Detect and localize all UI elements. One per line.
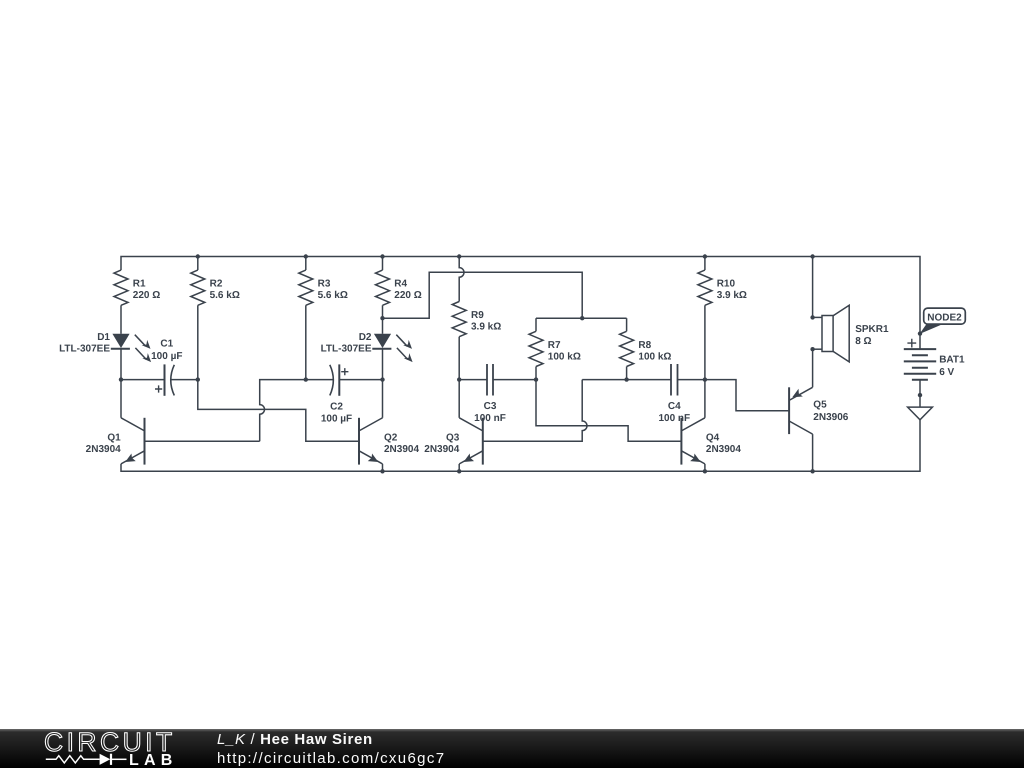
resistor R2 <box>191 270 240 305</box>
svg-text:Q5: Q5 <box>813 400 827 411</box>
transistor Q1 <box>86 418 145 465</box>
wire R7 top lead <box>535 318 537 331</box>
transistor Q3 <box>424 418 483 465</box>
wire R2 top lead <box>197 257 199 271</box>
svg-text:8 Ω: 8 Ω <box>855 336 871 347</box>
transistor Q4 <box>681 418 741 465</box>
junction dot NODE2 <box>918 331 922 335</box>
svg-text:100 kΩ: 100 kΩ <box>638 351 671 362</box>
wire C1 right <box>170 379 197 381</box>
junction dot Q4 emitter/ground rail <box>703 469 707 473</box>
wire D2 anode lead <box>382 318 384 334</box>
wire Q5 collector to rail <box>812 434 814 471</box>
resistor R7 <box>529 331 581 366</box>
wire R7 node to Q4 base <box>536 380 681 442</box>
svg-text:220 Ω: 220 Ω <box>394 290 421 301</box>
wire R4 top lead <box>382 257 384 271</box>
junction dot node D1-C1-Q1 collector <box>119 377 123 381</box>
svg-text:D2: D2 <box>359 332 372 343</box>
transistor Q2 <box>359 418 419 465</box>
junction dot node C2-D2-Q2 collector <box>380 377 384 381</box>
svg-text:C4: C4 <box>668 401 681 412</box>
wire speaker top stub <box>813 316 822 318</box>
svg-text:D1: D1 <box>97 332 110 343</box>
svg-text:R8: R8 <box>638 340 651 351</box>
svg-text:Q4: Q4 <box>706 432 720 443</box>
svg-text:Q3: Q3 <box>446 432 460 443</box>
svg-text:2N3906: 2N3906 <box>813 412 848 423</box>
wire R3 bottom to node <box>305 305 307 379</box>
battery BAT1 <box>904 339 936 380</box>
junction dot node C4-R10-Q4 collector-Q5 base <box>703 377 707 381</box>
svg-text:R10: R10 <box>717 278 736 289</box>
svg-text:100 nF: 100 nF <box>474 413 506 424</box>
junction dot R4/V+ rail <box>380 254 384 258</box>
junction dot SPKR1 bottom terminal <box>810 347 814 351</box>
wire bottom ground rail <box>121 420 920 472</box>
svg-text:C1: C1 <box>160 339 173 350</box>
wire R10 top lead <box>704 257 706 271</box>
svg-text:100 µF: 100 µF <box>151 351 182 362</box>
junction dot node R7R8 feed <box>580 316 584 320</box>
wire Q2 emitter to rail <box>382 464 384 471</box>
junction dot node R4-D2-feed <box>380 316 384 320</box>
svg-text:6 V: 6 V <box>939 367 954 378</box>
wire Q1 base <box>145 440 260 442</box>
wire R4 node to R7 R8 feed <box>383 272 583 318</box>
junction dot node R9-C3-Q3 collector <box>457 377 461 381</box>
svg-text:3.9 kΩ: 3.9 kΩ <box>471 321 501 332</box>
junction dot node R7-C3-Q4 base <box>534 377 538 381</box>
wire battery to ground symbol <box>919 380 921 407</box>
junction dot R2/V+ rail <box>196 254 200 258</box>
LED D2 <box>321 332 413 362</box>
capacitor C1 <box>155 364 174 395</box>
svg-text:100 µF: 100 µF <box>321 413 352 424</box>
wire Q3 collector <box>458 380 460 418</box>
junction dot node C1-R2 <box>196 377 200 381</box>
junction dot SPKR branch/V+ rail <box>810 254 814 258</box>
LED D1 <box>59 332 151 362</box>
svg-text:R1: R1 <box>133 278 146 289</box>
svg-text:LTL-307EE: LTL-307EE <box>59 344 110 355</box>
resistor R4 <box>376 270 422 305</box>
wire R7 R8 top bar <box>536 317 627 319</box>
wire top power rail <box>121 257 920 350</box>
svg-text:R7: R7 <box>548 340 561 351</box>
junction dot node R8-C4-Q3 base <box>624 377 628 381</box>
wire Q3 emitter to rail <box>458 464 460 471</box>
wire C3 left <box>459 379 487 381</box>
wire Q1 base riser with hop to R3 node <box>260 380 306 442</box>
wire R8 node horizontal to C4 <box>582 379 671 381</box>
wire Q5 base feed <box>705 380 789 411</box>
resistor R10 <box>698 270 747 305</box>
svg-text:C2: C2 <box>330 401 343 412</box>
wire R8 bottom to node <box>626 367 628 380</box>
svg-text:100 kΩ: 100 kΩ <box>548 351 581 362</box>
svg-text:BAT1: BAT1 <box>939 355 965 366</box>
junction dot R9/V+ rail <box>457 254 461 258</box>
wire node to Q1 collector <box>120 380 122 418</box>
svg-text:R4: R4 <box>394 278 407 289</box>
wire R4 bottom to D2 node <box>382 305 384 318</box>
svg-text:100 nF: 100 nF <box>658 413 690 424</box>
resistor R1 <box>114 270 160 305</box>
wire C3 right <box>493 379 536 381</box>
capacitor C2 <box>330 364 349 395</box>
junction dot battery negative <box>918 393 922 397</box>
junction dot Q5 collector/ground rail <box>810 469 814 473</box>
wire R1 to D1 <box>120 305 122 334</box>
ground <box>908 407 933 420</box>
wire Q4 emitter to rail <box>704 464 706 471</box>
svg-text:NODE2: NODE2 <box>927 313 962 324</box>
wire R8 node riser with hop to Q3 base <box>483 380 587 442</box>
svg-text:R3: R3 <box>318 278 331 289</box>
wire speaker bottom stub <box>813 348 822 350</box>
wire R8 top lead <box>626 318 628 331</box>
wire D2 node to Q2 collector <box>382 380 384 418</box>
wire D2 cathode to node <box>382 349 384 380</box>
wire speaker to Q5 emitter <box>812 349 814 387</box>
wire R10 bottom to node <box>704 305 706 379</box>
resistor R9 <box>452 302 501 337</box>
svg-text:2N3904: 2N3904 <box>86 444 121 455</box>
junction dot Q3 emitter/ground rail <box>457 469 461 473</box>
svg-text:5.6 kΩ: 5.6 kΩ <box>210 290 240 301</box>
resistor R3 <box>299 270 348 305</box>
svg-text:Q2: Q2 <box>384 432 398 443</box>
junction dot Q2 emitter/ground rail <box>380 469 384 473</box>
svg-text:LTL-307EE: LTL-307EE <box>321 344 372 355</box>
svg-text:2N3904: 2N3904 <box>706 444 741 455</box>
resistor R8 <box>620 331 672 366</box>
capacitor C3 <box>487 364 493 396</box>
svg-text:2N3904: 2N3904 <box>384 444 419 455</box>
junction dot R3/V+ rail <box>304 254 308 258</box>
wire C1 left <box>121 379 165 381</box>
svg-text:Q1: Q1 <box>107 432 121 443</box>
speaker SPKR1 <box>822 305 849 362</box>
wire C2 left <box>306 379 334 381</box>
wire C2 right <box>339 379 382 381</box>
wire R9 top lead with hop <box>459 257 464 302</box>
svg-text:5.6 kΩ: 5.6 kΩ <box>318 290 348 301</box>
svg-text:R9: R9 <box>471 310 484 321</box>
wire C4 right <box>678 379 705 381</box>
wire R9 bottom to node <box>458 337 460 380</box>
svg-text:SPKR1: SPKR1 <box>855 324 889 335</box>
transistor Q5 <box>789 387 813 434</box>
wire Q4 collector <box>704 380 706 418</box>
svg-text:220 Ω: 220 Ω <box>133 290 160 301</box>
wire R2 bottom to node <box>197 305 199 379</box>
svg-text:R2: R2 <box>210 278 223 289</box>
capacitor C4 <box>671 364 678 396</box>
svg-text:2N3904: 2N3904 <box>424 444 459 455</box>
wire speaker top branch <box>812 257 814 318</box>
wire R7 bottom to node <box>535 367 537 380</box>
wire D1 cathode to node <box>120 349 122 380</box>
svg-text:C3: C3 <box>484 401 497 412</box>
wire R2 node to Q2 base <box>198 380 359 442</box>
junction dots <box>119 254 922 473</box>
junction dot SPKR1 top terminal <box>810 315 814 319</box>
node NODE2 flag <box>920 308 966 334</box>
junction dot R10/V+ rail <box>703 254 707 258</box>
svg-text:3.9 kΩ: 3.9 kΩ <box>717 290 747 301</box>
wire R3 top lead <box>305 257 307 271</box>
svg-text:LAB: LAB <box>129 752 177 768</box>
junction dot node R3-C2-Q1 base <box>304 377 308 381</box>
